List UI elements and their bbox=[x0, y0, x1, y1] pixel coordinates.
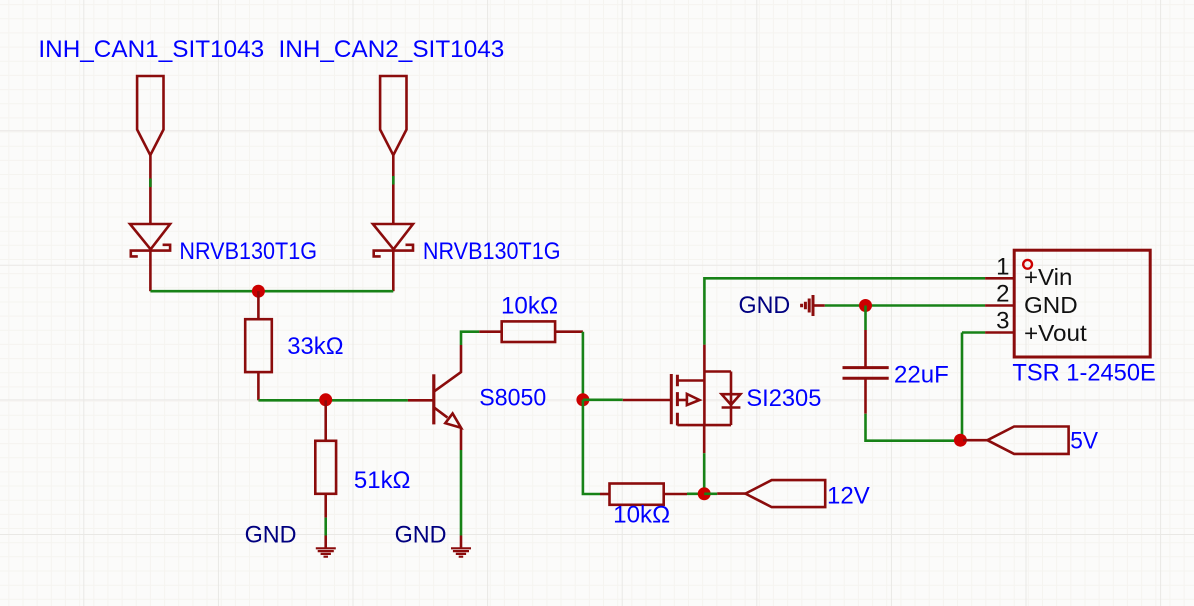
junction dot node E (GND/cap) bbox=[859, 299, 872, 312]
port INH_CAN1_SIT1043 bbox=[137, 76, 163, 155]
wire base bus bbox=[258, 399, 408, 402]
resistor R1 33k bbox=[245, 319, 272, 372]
svg-text:10kΩ: 10kΩ bbox=[613, 502, 670, 529]
ground flag GND3 bbox=[802, 295, 813, 316]
wire node E to C1 bbox=[864, 306, 867, 331]
port INH_CAN2_SIT1043 bbox=[380, 76, 406, 155]
wire TSR pin3 to 5V node bbox=[985, 331, 1014, 334]
junction dot node F (5V) bbox=[954, 434, 967, 447]
mosfet Q2 body diode bbox=[730, 372, 733, 426]
wire cathode bus bbox=[150, 290, 393, 293]
diode D2 NRVB130T1G bbox=[373, 224, 413, 249]
diode D1 NRVB130T1G bbox=[130, 224, 170, 249]
svg-text:1: 1 bbox=[996, 253, 1009, 280]
svg-text:+Vin: +Vin bbox=[1024, 264, 1072, 290]
svg-text:NRVB130T1G: NRVB130T1G bbox=[423, 238, 561, 265]
ground GND2 bbox=[451, 548, 471, 556]
resistor R3 10k bbox=[502, 321, 555, 342]
mosfet Q2 source arrow bbox=[677, 399, 687, 402]
svg-text:22uF: 22uF bbox=[894, 362, 949, 389]
wire node C to R4 bbox=[583, 400, 600, 494]
port 12V flag bbox=[745, 480, 825, 507]
svg-text:+Vout: +Vout bbox=[1024, 320, 1087, 346]
svg-text:3: 3 bbox=[996, 308, 1009, 335]
svg-text:51kΩ: 51kΩ bbox=[354, 467, 411, 494]
wire C1 to 5V rail bbox=[864, 378, 867, 413]
svg-text:INH_CAN2_SIT1043: INH_CAN2_SIT1043 bbox=[279, 36, 505, 63]
svg-text:GND: GND bbox=[395, 521, 447, 548]
wire R51k to GND1 bbox=[324, 494, 327, 518]
transistor Q1 emitter with arrow bbox=[434, 408, 447, 418]
junction dot node D (source/12V) bbox=[698, 487, 711, 500]
resistor R2 51k bbox=[315, 441, 336, 494]
port 5V flag bbox=[987, 427, 1068, 454]
svg-text:S8050: S8050 bbox=[479, 385, 546, 412]
junction dot node C bbox=[576, 393, 589, 406]
junction dot node A bbox=[252, 285, 265, 298]
transistor Q1 collector bbox=[434, 345, 461, 391]
mosfet Q2 top conductor bbox=[677, 372, 731, 426]
wire R4 right to source node bbox=[664, 493, 687, 496]
capacitor C1 22uF bbox=[843, 366, 889, 369]
wire port1 to D1 bbox=[149, 155, 152, 224]
wire port2 to D2 bbox=[392, 155, 395, 224]
svg-text:2: 2 bbox=[996, 281, 1009, 308]
svg-text:5V: 5V bbox=[1070, 428, 1098, 455]
resistor R4 10k bbox=[610, 484, 664, 505]
mosfet Q2 channel dashes bbox=[676, 375, 679, 426]
svg-text:GND: GND bbox=[245, 521, 297, 548]
svg-text:SI2305: SI2305 bbox=[746, 385, 821, 412]
mosfet Q2 SI2305 gate bar bbox=[670, 374, 673, 424]
svg-text:33kΩ: 33kΩ bbox=[287, 333, 343, 360]
regulator U1 TSR 1-2450E box bbox=[1014, 250, 1150, 357]
junction dot node B bbox=[319, 393, 332, 406]
svg-text:INH_CAN1_SIT1043: INH_CAN1_SIT1043 bbox=[38, 36, 264, 63]
wire R33k to base bus bbox=[257, 372, 260, 400]
pin-1 indicator circle bbox=[1023, 260, 1032, 269]
svg-text:GND: GND bbox=[1024, 292, 1078, 318]
wire node D to 12V port bbox=[704, 492, 717, 495]
svg-text:10kΩ: 10kΩ bbox=[501, 292, 558, 319]
svg-text:12V: 12V bbox=[827, 483, 870, 510]
svg-text:GND: GND bbox=[739, 292, 791, 319]
mosfet Q2 source pin bbox=[703, 425, 706, 453]
svg-text:NRVB130T1G: NRVB130T1G bbox=[179, 238, 317, 265]
svg-text:TSR 1-2450E: TSR 1-2450E bbox=[1012, 360, 1155, 387]
mosfet Q2 drain pin bbox=[703, 345, 706, 381]
transistor Q1 S8050 base bar bbox=[432, 374, 435, 424]
wire drain to TSR pin1 bbox=[704, 278, 985, 344]
wire bus to R33k bbox=[257, 291, 260, 319]
wire base pin bbox=[408, 399, 434, 402]
ground GND1 bbox=[316, 548, 336, 556]
wire GND net to TSR pin2 bbox=[825, 304, 985, 307]
wire node B to R51k bbox=[324, 400, 327, 441]
wire node C to gate bbox=[583, 398, 623, 401]
wire R3 right to gate node bbox=[555, 330, 583, 333]
wire node F to 5V port bbox=[963, 439, 987, 442]
